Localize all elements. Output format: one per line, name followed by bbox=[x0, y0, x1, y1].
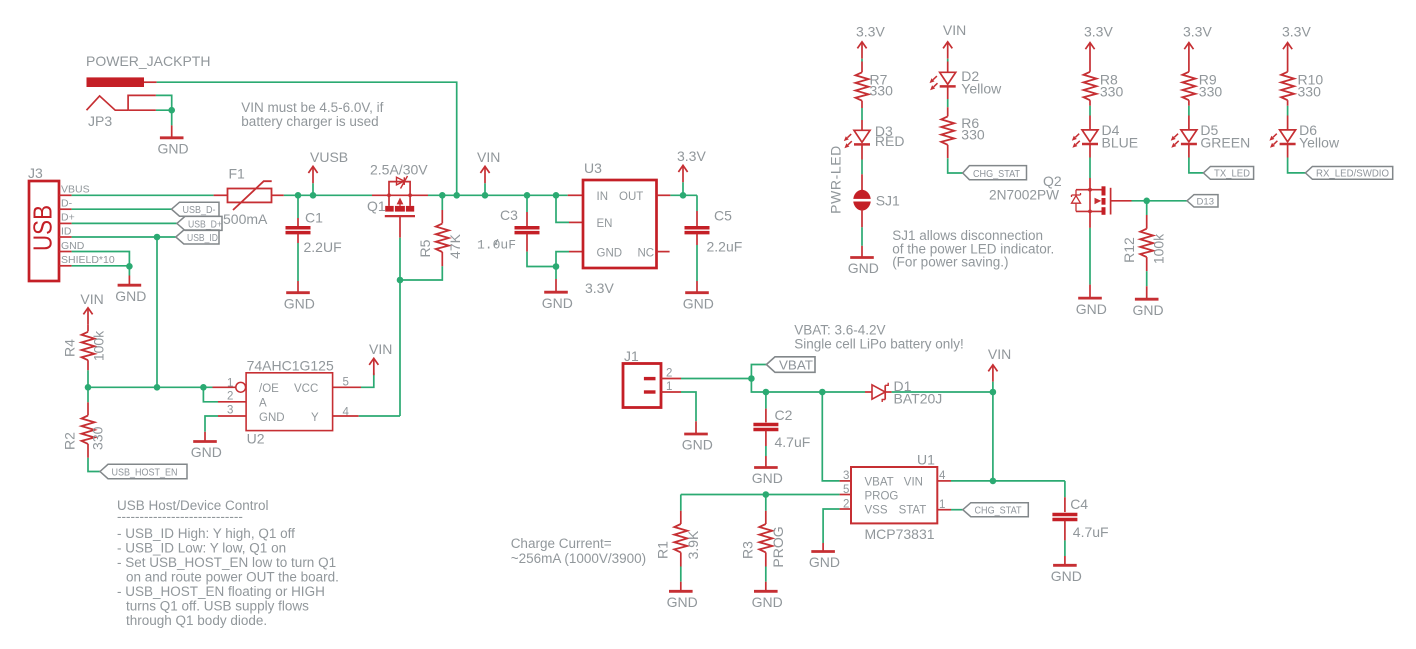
svg-text:J3: J3 bbox=[28, 165, 43, 181]
svg-text:D-: D- bbox=[61, 198, 73, 210]
Q2 junction dots bbox=[1088, 188, 1092, 192]
resistor R12 bbox=[1146, 201, 1148, 215]
wire pin1 stub bbox=[213, 386, 236, 388]
wire R2 top bbox=[87, 387, 89, 402]
connector J3 body bbox=[29, 181, 59, 281]
svg-text:100k: 100k bbox=[1151, 233, 1167, 264]
wire rail F1 to Q1 bbox=[284, 194, 372, 196]
ground Q2 bbox=[1078, 297, 1102, 299]
svg-text:USB_D+: USB_D+ bbox=[188, 218, 222, 230]
resistor R7 bbox=[856, 72, 869, 100]
svg-text:- Set USB_HOST_EN low to turn: - Set USB_HOST_EN low to turn Q1 bbox=[117, 555, 336, 570]
wire to R7 bbox=[861, 59, 863, 62]
svg-text:330: 330 bbox=[1100, 84, 1124, 100]
svg-text:330: 330 bbox=[870, 83, 894, 99]
wire VBUS net bbox=[72, 194, 214, 196]
capacitor C4 bbox=[1052, 515, 1077, 520]
wire pin5 VCC bbox=[333, 386, 361, 388]
svg-text:VCC: VCC bbox=[294, 383, 318, 395]
svg-text:VBAT: VBAT bbox=[865, 477, 894, 489]
diode D1 bbox=[865, 391, 872, 393]
wire pin2 net bbox=[203, 387, 218, 402]
junction R4/R2 bbox=[85, 384, 92, 391]
J1 pin pads bbox=[644, 377, 656, 380]
resistor R4 bbox=[82, 332, 95, 360]
pin D- stub bbox=[59, 208, 72, 210]
jumper JP3 chevron bbox=[87, 96, 129, 110]
wire VSS net bbox=[823, 509, 840, 543]
wire C3 top bbox=[526, 195, 528, 212]
resistor R2 bbox=[82, 416, 95, 444]
connector JP3 pad bar bbox=[87, 77, 145, 87]
svg-text:2.5A/30V: 2.5A/30V bbox=[370, 162, 428, 178]
wire SHIELD pin net bbox=[72, 265, 130, 267]
svg-text:U1: U1 bbox=[917, 452, 935, 468]
wire D6 to flag bbox=[1287, 144, 1289, 157]
svg-text:POWER_JACKPTH: POWER_JACKPTH bbox=[86, 53, 210, 69]
svg-text:D+: D+ bbox=[61, 212, 75, 224]
svg-text:2: 2 bbox=[227, 391, 233, 403]
wire R7 to D3 bbox=[861, 101, 863, 108]
svg-text:GND: GND bbox=[809, 554, 840, 570]
wire Q2 source to gnd bbox=[1089, 211, 1091, 228]
svg-text:R4: R4 bbox=[62, 339, 78, 357]
ground jack bbox=[160, 137, 184, 139]
wire VBAT down to row bbox=[751, 379, 865, 393]
wire GND pin net bbox=[72, 252, 130, 267]
ground C3/U3 bbox=[544, 291, 568, 293]
flag RX_LED/SWDIO bbox=[1305, 167, 1392, 180]
wire net from jack to rail bbox=[157, 82, 457, 196]
junction C3/GND/U3 bbox=[553, 263, 560, 270]
junction VUSB bbox=[310, 192, 317, 199]
svg-text:Yellow: Yellow bbox=[1299, 135, 1340, 151]
svg-text:2: 2 bbox=[843, 499, 849, 511]
junction jack/gnd node bbox=[168, 107, 175, 114]
ground C1 bbox=[286, 292, 310, 294]
ground U1 bbox=[811, 551, 835, 553]
wire ID net bbox=[72, 236, 176, 238]
svg-text:C4: C4 bbox=[1070, 496, 1088, 512]
ground SJ1 bbox=[850, 257, 874, 259]
svg-text:74AHC1G125: 74AHC1G125 bbox=[247, 358, 334, 374]
resistor R5 bbox=[441, 195, 443, 210]
svg-text:100k: 100k bbox=[91, 330, 107, 361]
junction VBAT bbox=[748, 375, 755, 382]
capacitor C5 bbox=[685, 228, 710, 233]
svg-text:MCP73831: MCP73831 bbox=[865, 526, 935, 542]
svg-text:~256mA (1000V/3900): ~256mA (1000V/3900) bbox=[511, 551, 646, 566]
wire rail red through Q1 bbox=[372, 194, 428, 196]
svg-text:5: 5 bbox=[843, 484, 849, 496]
junction VIN bbox=[482, 192, 489, 199]
svg-text:USB_HOST_EN: USB_HOST_EN bbox=[112, 467, 178, 479]
svg-text:IN: IN bbox=[597, 191, 609, 203]
jumper JP3 body rectangle bbox=[128, 95, 156, 110]
svg-text:3.3V: 3.3V bbox=[1084, 24, 1113, 40]
junction row/ID bbox=[154, 384, 161, 391]
svg-text:330: 330 bbox=[90, 426, 106, 450]
svg-text:----------------------------: ---------------------------- bbox=[117, 509, 243, 524]
svg-text:D13: D13 bbox=[1197, 197, 1215, 208]
svg-text:VIN: VIN bbox=[943, 22, 966, 38]
IC U1 body bbox=[851, 467, 937, 523]
svg-text:/OE: /OE bbox=[259, 383, 279, 395]
ground J1 bbox=[684, 433, 708, 435]
wire U1 VIN pin bbox=[937, 480, 951, 482]
flag USB_ID bbox=[176, 230, 219, 244]
resistor R6 bbox=[941, 116, 954, 144]
wire R8 to D4 bbox=[1089, 100, 1091, 106]
junction R5 bbox=[439, 192, 446, 199]
svg-text:3.3V: 3.3V bbox=[1282, 24, 1311, 40]
wire OUT stub bbox=[657, 194, 671, 196]
junction gate/R12 bbox=[1143, 198, 1150, 205]
svg-text:on and route power OUT the boa: on and route power OUT the board. bbox=[126, 570, 339, 585]
svg-text:GND: GND bbox=[682, 437, 713, 453]
svg-text:VIN must be 4.5-6.0V, if: VIN must be 4.5-6.0V, if bbox=[241, 100, 383, 115]
pin SHIELD stub bbox=[59, 265, 72, 267]
Q2 gate bar bbox=[1110, 188, 1112, 215]
flag USB_D- bbox=[172, 202, 220, 216]
svg-text:PROG: PROG bbox=[770, 526, 786, 567]
svg-text:3.3V: 3.3V bbox=[1183, 24, 1212, 40]
svg-text:battery charger is used: battery charger is used bbox=[241, 114, 378, 129]
svg-text:through Q1 body diode.: through Q1 body diode. bbox=[126, 613, 267, 628]
wire C5 bottom bbox=[696, 234, 698, 245]
svg-text:VIN: VIN bbox=[369, 341, 392, 357]
wire ID down to U2 row bbox=[156, 237, 158, 387]
junction VIN node bbox=[990, 389, 997, 396]
svg-text:VBAT: 3.6-4.2V: VBAT: 3.6-4.2V bbox=[794, 323, 885, 338]
wire D1 to VIN node bbox=[892, 391, 993, 393]
wire NC stub bbox=[657, 251, 670, 253]
svg-text:U2: U2 bbox=[247, 431, 265, 447]
wire R10 to D6 bbox=[1287, 100, 1289, 106]
wire C1 top bbox=[297, 195, 299, 218]
flag USB_D+ bbox=[177, 216, 222, 230]
wire C4 top bbox=[1064, 481, 1066, 497]
junction U1 VBAT bbox=[819, 389, 826, 396]
junction U1 VIN/C4 bbox=[990, 478, 997, 485]
Q2 body bbox=[1076, 190, 1102, 212]
wire to R10 bbox=[1287, 60, 1289, 72]
flag CHG_STAT U1 bbox=[963, 503, 1029, 517]
svg-text:BLUE: BLUE bbox=[1102, 135, 1139, 151]
svg-text:RX_LED/SWDIO: RX_LED/SWDIO bbox=[1316, 168, 1389, 180]
wire rail Q1 to U3 bbox=[428, 194, 568, 196]
wire PROG net bbox=[681, 494, 840, 496]
svg-text:Charge Current=: Charge Current= bbox=[511, 536, 612, 551]
flag D13 bbox=[1187, 195, 1218, 207]
svg-text:USB_ID: USB_ID bbox=[187, 232, 218, 244]
ground U2 bbox=[193, 441, 217, 443]
resistor R1 bbox=[680, 495, 682, 511]
wire GND pin net bbox=[556, 252, 569, 267]
svg-text:GND: GND bbox=[542, 295, 573, 311]
svg-text:GND: GND bbox=[1076, 301, 1107, 317]
junction C2 bbox=[763, 389, 770, 396]
pin D+ stub bbox=[59, 222, 72, 224]
svg-text:1.0uF: 1.0uF bbox=[477, 238, 516, 253]
pin 1 stub bbox=[661, 391, 681, 393]
wire C4 bottom bbox=[1064, 521, 1066, 541]
wire C5 top bbox=[696, 195, 698, 211]
connector J1 body bbox=[623, 364, 661, 408]
wire D+ net bbox=[72, 222, 177, 224]
Q2 body diode bbox=[1072, 196, 1081, 204]
Q2 channel bars bbox=[1102, 186, 1106, 215]
IC U2 body bbox=[246, 373, 333, 431]
wire row to U2 pin1 bbox=[88, 386, 213, 388]
resistor R3 bbox=[765, 495, 767, 511]
svg-text:GREEN: GREEN bbox=[1200, 135, 1250, 151]
svg-text:2.2uF: 2.2uF bbox=[707, 239, 743, 255]
svg-text:3.3V: 3.3V bbox=[856, 24, 885, 40]
wire to gnd bbox=[171, 110, 173, 125]
svg-text:1: 1 bbox=[227, 377, 233, 389]
svg-text:USB: USB bbox=[28, 205, 58, 251]
svg-text:VIN: VIN bbox=[477, 149, 500, 165]
svg-text:GND: GND bbox=[597, 248, 623, 260]
LED D5 bbox=[1171, 130, 1197, 148]
wire to VBAT flag bbox=[751, 365, 766, 379]
ground C2 bbox=[754, 467, 778, 469]
svg-text:RED: RED bbox=[875, 133, 905, 149]
wire J1 pin2 net bbox=[681, 378, 751, 380]
wire to D2 bbox=[947, 59, 949, 62]
svg-text:CHG_STAT: CHG_STAT bbox=[975, 505, 1023, 517]
svg-text:PROG: PROG bbox=[865, 491, 899, 503]
flag CHG_STAT top bbox=[963, 166, 1027, 180]
wire SJ1 to gnd bbox=[861, 210, 863, 228]
wire pin4 Y bbox=[333, 415, 359, 417]
svg-text:SJ1: SJ1 bbox=[876, 193, 900, 209]
svg-text:3.9K: 3.9K bbox=[685, 530, 701, 559]
resistor R9 bbox=[1182, 72, 1195, 100]
svg-text:3.3V: 3.3V bbox=[585, 280, 614, 296]
wire J1 pin1 to gnd bbox=[681, 392, 696, 421]
Q2 substrate arrow bbox=[1095, 198, 1102, 205]
svg-text:VUSB: VUSB bbox=[310, 149, 348, 165]
wire C1 bottom bbox=[297, 234, 299, 243]
pin ID stub bbox=[59, 236, 72, 238]
wire D- net bbox=[72, 208, 172, 210]
wire to R9 bbox=[1188, 60, 1190, 72]
junction ID node bbox=[154, 234, 161, 241]
svg-text:USB_D-: USB_D- bbox=[183, 204, 216, 216]
svg-text:C2: C2 bbox=[775, 407, 793, 423]
svg-text:GND: GND bbox=[61, 240, 85, 252]
wire F1 right stub bbox=[272, 194, 284, 196]
svg-text:GND: GND bbox=[259, 412, 285, 424]
wire D4 to Q2 bbox=[1089, 144, 1091, 157]
svg-text:OUT: OUT bbox=[619, 191, 643, 203]
svg-text:GND: GND bbox=[1051, 568, 1082, 584]
svg-text:2N7002PW: 2N7002PW bbox=[989, 187, 1060, 203]
junction R3/PROG bbox=[763, 491, 770, 498]
svg-text:GND: GND bbox=[752, 594, 783, 610]
svg-text:GND: GND bbox=[752, 470, 783, 486]
svg-text:4.7uF: 4.7uF bbox=[1073, 524, 1109, 540]
svg-text:VBAT: VBAT bbox=[779, 358, 813, 372]
resistor R8 bbox=[1084, 72, 1097, 100]
wire IN stub bbox=[568, 194, 583, 196]
svg-text:VIN: VIN bbox=[904, 477, 923, 489]
wire D5 to flag bbox=[1188, 144, 1190, 157]
svg-text:GND: GND bbox=[191, 444, 222, 460]
svg-text:JP3: JP3 bbox=[88, 113, 112, 129]
capacitor C2 bbox=[753, 425, 778, 430]
svg-text:ID: ID bbox=[61, 225, 72, 237]
svg-text:turns Q1 off. USB supply flows: turns Q1 off. USB supply flows bbox=[126, 599, 309, 614]
svg-text:VSS: VSS bbox=[865, 505, 888, 517]
svg-text:SHIELD*10: SHIELD*10 bbox=[61, 254, 115, 266]
wire jack pin stub bbox=[144, 81, 157, 83]
svg-text:J1: J1 bbox=[624, 348, 639, 364]
svg-text:NC: NC bbox=[638, 248, 655, 260]
svg-text:R12: R12 bbox=[1121, 237, 1137, 263]
svg-text:2: 2 bbox=[666, 368, 672, 380]
regulator U3 bbox=[583, 180, 657, 268]
svg-text:1: 1 bbox=[666, 381, 672, 393]
svg-text:GND: GND bbox=[158, 141, 189, 157]
svg-text:A: A bbox=[259, 397, 267, 409]
svg-text:BAT20J: BAT20J bbox=[894, 391, 943, 407]
wire C2 bottom bbox=[765, 431, 767, 446]
Q1 body diode bbox=[397, 177, 405, 185]
flag USB_HOST_EN bbox=[100, 464, 187, 478]
wire STAT pin bbox=[937, 509, 951, 511]
wire R6 to flag bbox=[947, 145, 949, 158]
junction jack-net bbox=[453, 192, 460, 199]
Q1 substrate arrow bbox=[397, 198, 404, 205]
wire rail to F1 bbox=[214, 194, 228, 196]
svg-text:U3: U3 bbox=[584, 160, 602, 176]
junction row/pin2 bbox=[200, 384, 207, 391]
svg-text:Single cell LiPo battery only!: Single cell LiPo battery only! bbox=[794, 337, 964, 352]
svg-text:GND: GND bbox=[683, 295, 714, 311]
resistor R10 bbox=[1281, 72, 1294, 100]
svg-text:GND: GND bbox=[284, 295, 315, 311]
svg-text:330: 330 bbox=[961, 127, 985, 143]
svg-text:F1: F1 bbox=[229, 166, 246, 182]
note USB host control bbox=[117, 498, 339, 628]
svg-text:GND: GND bbox=[848, 260, 879, 276]
wire to R8 bbox=[1089, 60, 1091, 72]
junction EN bbox=[553, 192, 560, 199]
svg-text:330: 330 bbox=[1298, 84, 1322, 100]
svg-text:Yellow: Yellow bbox=[961, 80, 1002, 96]
svg-text:C3: C3 bbox=[500, 207, 518, 223]
ground J3 bbox=[118, 284, 142, 286]
svg-text:GND: GND bbox=[1133, 302, 1164, 318]
LED D2 bbox=[930, 72, 956, 90]
svg-text:R5: R5 bbox=[417, 239, 433, 257]
svg-text:R2: R2 bbox=[62, 432, 78, 450]
capacitor C3 bbox=[515, 228, 540, 233]
svg-text:C5: C5 bbox=[714, 208, 732, 224]
wire shield to gnd bbox=[128, 266, 130, 275]
transistor Q1 bbox=[372, 182, 428, 206]
LED D4 bbox=[1072, 130, 1098, 148]
pin 2 stub bbox=[661, 378, 681, 380]
wire U3 gnd node down bbox=[555, 267, 557, 280]
svg-text:- USB_HOST_EN floating or HIGH: - USB_HOST_EN floating or HIGH bbox=[117, 584, 325, 599]
flag TX_LED bbox=[1203, 167, 1253, 180]
svg-text:500mA: 500mA bbox=[223, 211, 268, 227]
svg-text:3: 3 bbox=[227, 405, 233, 417]
svg-text:TX_LED: TX_LED bbox=[1214, 168, 1250, 180]
ground C4 bbox=[1053, 564, 1077, 566]
wire D2 to R6 bbox=[947, 87, 949, 99]
svg-text:STAT: STAT bbox=[899, 505, 927, 517]
svg-text:330: 330 bbox=[1199, 84, 1223, 100]
ground R1 bbox=[669, 590, 693, 592]
svg-text:CHG_STAT: CHG_STAT bbox=[973, 168, 1021, 180]
wire C3 bottom bbox=[526, 234, 528, 252]
wire R4 bottom bbox=[87, 360, 89, 370]
LED D6 bbox=[1269, 130, 1295, 148]
svg-text:R1: R1 bbox=[655, 541, 671, 559]
ground R3 bbox=[754, 590, 778, 592]
svg-text:VBUS: VBUS bbox=[61, 184, 90, 196]
svg-text:GND: GND bbox=[667, 594, 698, 610]
junction 3.3V out bbox=[680, 192, 687, 199]
pin VBUS stub bbox=[59, 194, 72, 196]
flag VBAT bbox=[766, 357, 815, 373]
Q1 gate plate bbox=[385, 215, 415, 217]
svg-text:VIN: VIN bbox=[988, 346, 1011, 362]
wire Q1 gate down bbox=[399, 216, 401, 238]
junction C1 bbox=[295, 192, 302, 199]
wire R9 to D5 bbox=[1188, 100, 1190, 106]
svg-text:VIN: VIN bbox=[80, 291, 103, 307]
wire R2 bottom to flag bbox=[87, 444, 89, 458]
ground R12 bbox=[1135, 298, 1159, 300]
svg-text:Q1: Q1 bbox=[367, 198, 386, 214]
wire U1 VBAT net bbox=[822, 392, 839, 481]
svg-text:47K: 47K bbox=[447, 233, 463, 259]
svg-text:2.2UF: 2.2UF bbox=[304, 239, 342, 255]
svg-text:R3: R3 bbox=[740, 541, 756, 559]
svg-text:3: 3 bbox=[843, 470, 849, 482]
ground C5 bbox=[685, 292, 709, 294]
capacitor C1 bbox=[286, 228, 311, 233]
wire arrow to R4 bbox=[87, 325, 89, 332]
svg-text:(For power saving.): (For power saving.) bbox=[892, 255, 1008, 270]
fuse F1 bbox=[228, 189, 272, 203]
wire D3 to SJ1 bbox=[861, 145, 863, 160]
junction C3 bbox=[524, 192, 531, 199]
Q1 junction dots bbox=[387, 193, 391, 197]
junction Q1/R5 bbox=[397, 277, 404, 284]
Q1 channel pads bbox=[385, 206, 414, 212]
svg-text:EN: EN bbox=[597, 218, 613, 230]
wire Q2 gate bbox=[1111, 200, 1132, 202]
svg-text:4.7uF: 4.7uF bbox=[775, 434, 811, 450]
svg-text:PWR-LED: PWR-LED bbox=[828, 145, 844, 214]
LED D3 bbox=[844, 130, 870, 148]
pin1 bubble bbox=[236, 382, 246, 392]
svg-text:- USB_ID High: Y high, Q1 off: - USB_ID High: Y high, Q1 off bbox=[117, 526, 295, 541]
solder jumper SJ1 bbox=[853, 190, 871, 211]
junction gnd/shield bbox=[126, 263, 133, 270]
wire EN net bbox=[556, 195, 569, 222]
svg-text:3.3V: 3.3V bbox=[677, 148, 706, 164]
pin GND stub bbox=[59, 251, 72, 253]
wire VIN node down to U1 bbox=[992, 392, 994, 481]
